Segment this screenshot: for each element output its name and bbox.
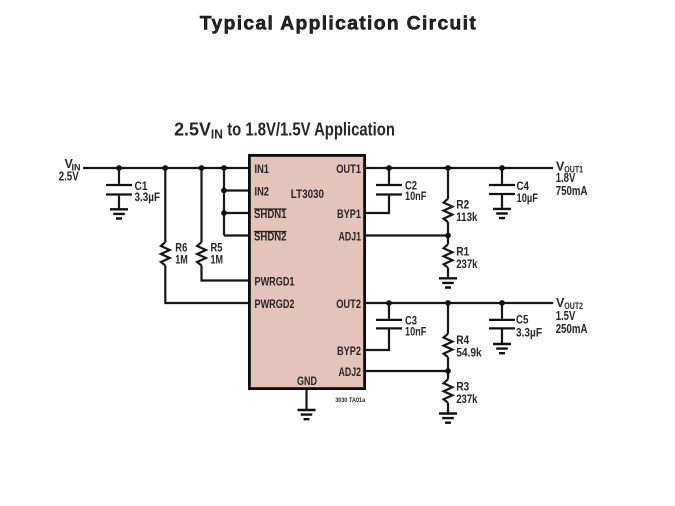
capacitor C2 leads <box>365 168 389 213</box>
resistor R4 value <box>456 335 482 360</box>
pin SHDN1 with overline <box>254 209 287 221</box>
wire GND lead <box>305 390 307 409</box>
ground for R1 <box>439 278 457 287</box>
svg-text:SHDN1: SHDN1 <box>254 209 287 221</box>
capacitor C4 value <box>517 181 539 205</box>
node OUT1 dot C2 <box>386 165 392 171</box>
svg-text:IN: IN <box>211 127 223 142</box>
svg-text:10nF: 10nF <box>405 191 426 203</box>
resistor R1 value <box>456 246 478 270</box>
svg-text:237k: 237k <box>456 259 478 271</box>
wire input rail <box>83 167 249 169</box>
capacitor C5 value <box>516 314 542 339</box>
svg-text:R6: R6 <box>175 243 187 255</box>
resistor R2 leads <box>447 168 449 236</box>
svg-text:C4: C4 <box>517 181 530 193</box>
svg-text:R1: R1 <box>456 246 470 258</box>
ground for C5 <box>493 344 511 353</box>
capacitor C3 value <box>405 316 426 339</box>
capacitor C3 leads <box>365 303 389 350</box>
ground for IC GND pin <box>298 410 316 419</box>
resistor R2 zigzag <box>444 199 453 222</box>
svg-text:OUT2: OUT2 <box>336 299 361 311</box>
resistor R1 leads <box>447 236 449 278</box>
svg-text:3030 TA01a: 3030 TA01a <box>335 398 366 404</box>
svg-text:237k: 237k <box>456 394 478 406</box>
node OUT2 dot C3 <box>386 300 392 306</box>
svg-text:ADJ2: ADJ2 <box>339 367 362 379</box>
resistor R4 zigzag <box>444 334 453 357</box>
node IN2 dot <box>221 188 227 194</box>
resistor R1 zigzag <box>444 244 453 267</box>
wire IN2 stub <box>224 189 249 191</box>
svg-text:PWRGD2: PWRGD2 <box>255 299 295 311</box>
svg-text:R2: R2 <box>456 199 469 211</box>
node OUT2 dot R4 <box>445 300 451 306</box>
node input rail dot C1 <box>116 165 122 171</box>
node ADJ2 dot <box>445 368 451 374</box>
svg-text:750mA: 750mA <box>556 184 588 198</box>
svg-text:R4: R4 <box>456 335 470 347</box>
resistor R3 leads <box>447 371 449 413</box>
capacitor C5 leads <box>501 303 503 343</box>
capacitor C2 value <box>405 181 426 203</box>
svg-text:LT3030: LT3030 <box>291 189 324 201</box>
svg-text:BYP1: BYP1 <box>337 209 361 221</box>
resistor R5 value <box>211 243 224 267</box>
node OUT1 dot C4 <box>499 165 505 171</box>
IC U1 LT3030 body <box>249 155 364 388</box>
resistor R6 value <box>175 243 188 267</box>
resistor R6 zigzag <box>161 242 170 265</box>
node OUT2 dot C5 <box>499 300 505 306</box>
svg-text:BYP2: BYP2 <box>337 346 361 358</box>
svg-text:R5: R5 <box>211 243 223 255</box>
ground for R3 <box>439 414 457 423</box>
wire SHDN2 stub <box>224 234 249 236</box>
svg-text:10µF: 10µF <box>517 193 539 205</box>
svg-text:R3: R3 <box>456 381 469 393</box>
svg-text:to 1.8V/1.5V Application: to 1.8V/1.5V Application <box>227 118 395 139</box>
svg-text:2.5V: 2.5V <box>174 118 211 139</box>
node input rail dot branch <box>221 165 227 171</box>
svg-text:IN1: IN1 <box>255 164 270 176</box>
svg-text:113k: 113k <box>456 212 478 224</box>
capacitor C3 plates <box>376 320 402 329</box>
resistor R4 leads <box>447 303 449 371</box>
svg-text:GND: GND <box>297 376 317 388</box>
ground for C1 <box>110 209 128 218</box>
svg-text:C5: C5 <box>516 314 529 326</box>
wire ADJ1 <box>365 234 448 236</box>
node VOUT2 label <box>556 296 588 336</box>
resistor R6 wires <box>165 168 249 303</box>
subtitle <box>174 118 395 141</box>
capacitor C4 leads <box>501 168 503 208</box>
capacitor C1 plates <box>106 185 132 195</box>
svg-text:10nF: 10nF <box>405 327 426 339</box>
svg-text:54.9k: 54.9k <box>456 347 482 359</box>
svg-text:ADJ1: ADJ1 <box>339 232 362 244</box>
capacitor C4 plates <box>489 185 515 194</box>
svg-text:2.5V: 2.5V <box>59 170 80 184</box>
node VOUT1 label <box>556 159 588 198</box>
capacitor C5 plates <box>489 320 515 329</box>
svg-text:3.3µF: 3.3µF <box>135 192 161 204</box>
svg-text:IN2: IN2 <box>255 187 270 199</box>
svg-text:1.8V: 1.8V <box>556 171 576 185</box>
resistor R3 zigzag <box>444 379 453 402</box>
svg-text:1M: 1M <box>175 254 188 266</box>
resistor R3 value <box>456 381 478 405</box>
node SHDN1 dot <box>221 210 227 216</box>
svg-text:PWRGD1: PWRGD1 <box>255 277 295 289</box>
resistor R5 wires <box>202 168 250 281</box>
node input rail dot R6 <box>162 165 168 171</box>
ground for C4 <box>493 209 511 218</box>
wire branch vertical to SHDN2 <box>223 168 225 236</box>
svg-text:Typical Application Circuit: Typical Application Circuit <box>200 13 477 34</box>
wire ADJ2 <box>365 370 448 372</box>
svg-text:3.3µF: 3.3µF <box>516 327 542 339</box>
capacitor C2 plates <box>376 185 402 195</box>
capacitor C1 value <box>135 181 161 204</box>
resistor R5 zigzag <box>197 242 206 265</box>
svg-text:1M: 1M <box>211 254 224 266</box>
resistor R2 value <box>456 199 478 223</box>
svg-text:250mA: 250mA <box>556 322 588 336</box>
svg-text:SHDN2: SHDN2 <box>254 232 287 244</box>
node OUT1 dot R2 <box>445 165 451 171</box>
capacitor C1 leads <box>118 168 120 209</box>
svg-text:1.5V: 1.5V <box>556 309 576 323</box>
wire OUT2 rail <box>365 302 553 304</box>
svg-text:OUT1: OUT1 <box>336 164 361 176</box>
wire SHDN1 stub <box>224 212 249 214</box>
pin SHDN2 with overline <box>254 232 287 244</box>
node ADJ1 dot <box>445 233 451 239</box>
wire OUT1 rail <box>365 167 553 169</box>
node input rail dot R5 <box>199 165 205 171</box>
node VIN label <box>59 157 81 184</box>
